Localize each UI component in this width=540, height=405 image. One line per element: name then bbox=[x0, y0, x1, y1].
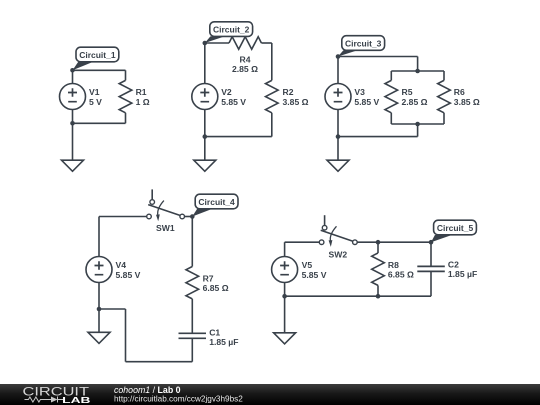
wire V5 top stub bbox=[284, 242, 286, 256]
svg-text:http://circuitlab.com/ccw2jgv3: http://circuitlab.com/ccw2jgv3h9bs2 bbox=[114, 394, 243, 403]
svg-text:R7: R7 bbox=[203, 273, 214, 283]
wire V5 bottom stub bbox=[284, 283, 286, 297]
node C1 bottom bbox=[70, 121, 75, 126]
resistor R5 bbox=[390, 71, 392, 80]
node C5 R8 bottom bbox=[376, 294, 381, 299]
svg-text:6.85 Ω: 6.85 Ω bbox=[388, 270, 414, 280]
node C3 bottom bar bbox=[415, 122, 420, 127]
wire right branch down to R2 bbox=[271, 43, 273, 80]
svg-text:5.85 V: 5.85 V bbox=[302, 270, 327, 280]
svg-text:V4: V4 bbox=[116, 260, 127, 270]
callout Circuit_2 bbox=[210, 22, 253, 37]
resistor R4 bbox=[229, 37, 261, 50]
wire ground stub C2 bbox=[204, 137, 206, 161]
callout Circuit_5 bbox=[434, 220, 477, 235]
logo schematic line bbox=[25, 397, 64, 403]
svg-text:2.85 Ω: 2.85 Ω bbox=[232, 64, 258, 74]
voltage source V2 bbox=[192, 84, 218, 110]
capacitor C2 bbox=[430, 242, 432, 266]
wire top C1 bbox=[73, 69, 126, 71]
wire switch to node bbox=[185, 216, 193, 218]
wire mid rise bbox=[417, 124, 419, 137]
svg-text:SW2: SW2 bbox=[329, 249, 348, 259]
svg-text:Circuit_2: Circuit_2 bbox=[213, 25, 250, 35]
callout Circuit_4 bbox=[195, 194, 238, 209]
wire bottom C3 bbox=[338, 136, 418, 138]
svg-text:R8: R8 bbox=[388, 260, 399, 270]
node C3 top bar bbox=[415, 69, 420, 74]
footer bar bbox=[0, 384, 540, 405]
wire V4 bottom stub bbox=[98, 283, 100, 310]
node C2 bottom bbox=[203, 134, 208, 139]
callout Circuit_3 bbox=[342, 36, 385, 51]
wire mid drop bbox=[417, 57, 419, 72]
ground C2 bbox=[194, 160, 216, 171]
wire V2 top stub bbox=[204, 43, 206, 84]
wire bottom bar bbox=[391, 123, 444, 125]
resistor R2 bbox=[266, 80, 279, 112]
svg-text:Circuit_3: Circuit_3 bbox=[345, 39, 382, 49]
node C5 bottom-left bbox=[282, 294, 287, 299]
wire elbow to node bbox=[99, 308, 126, 310]
svg-text:5.85 V: 5.85 V bbox=[116, 270, 141, 280]
node C5 C2 top bbox=[429, 240, 434, 245]
svg-text:3.85 Ω: 3.85 Ω bbox=[454, 97, 480, 107]
svg-text:5 V: 5 V bbox=[89, 97, 102, 107]
wire R4 to corner bbox=[261, 42, 271, 44]
node C4 bottom-left bbox=[97, 307, 102, 312]
voltage source V1 bbox=[60, 84, 86, 110]
svg-text:5.85 V: 5.85 V bbox=[221, 97, 246, 107]
wire node to R4 bbox=[205, 42, 229, 44]
capacitor C1 bbox=[179, 333, 207, 338]
resistor R1 bbox=[125, 70, 127, 80]
node C5 R8 top bbox=[376, 240, 381, 245]
resistor R7 bbox=[186, 267, 199, 299]
wire V1 top stub bbox=[72, 70, 74, 83]
wire top bar bbox=[391, 70, 444, 72]
wire V1 bottom stub bbox=[72, 110, 74, 124]
voltage source V5 bbox=[272, 257, 298, 283]
svg-text:R4: R4 bbox=[240, 55, 251, 65]
svg-text:6.85 Ω: 6.85 Ω bbox=[203, 283, 229, 293]
wire ground stub C4 bbox=[98, 309, 100, 332]
resistor R6 bbox=[443, 71, 445, 80]
ground C3 bbox=[327, 160, 349, 171]
wire top C3 bbox=[338, 56, 418, 58]
ground C1 bbox=[62, 160, 84, 171]
wire right branch down C4 bbox=[191, 217, 193, 267]
resistor R8 bbox=[377, 242, 379, 253]
callouts bbox=[73, 22, 477, 242]
svg-text:V3: V3 bbox=[354, 87, 365, 97]
voltage source V4 bbox=[86, 257, 112, 283]
svg-text:C2: C2 bbox=[448, 260, 459, 270]
wire ground stub C3 bbox=[337, 137, 339, 161]
wire V3 bottom stub bbox=[337, 110, 339, 137]
svg-text:LAB: LAB bbox=[62, 395, 90, 405]
svg-text:V1: V1 bbox=[89, 87, 100, 97]
svg-text:V2: V2 bbox=[221, 87, 232, 97]
wire switch to C2 branch bbox=[357, 241, 431, 243]
wire V3 top stub bbox=[337, 57, 339, 84]
switch SW1 bbox=[151, 189, 153, 199]
wire bottom rail C4 bbox=[126, 361, 193, 363]
node C3 top-left bbox=[336, 54, 341, 59]
svg-text:1 Ω: 1 Ω bbox=[136, 97, 150, 107]
logo diode bbox=[51, 397, 58, 403]
svg-text:R5: R5 bbox=[402, 87, 413, 97]
svg-text:R2: R2 bbox=[283, 87, 294, 97]
node dots bbox=[70, 41, 433, 312]
wire bottom C2 bbox=[205, 136, 272, 138]
node C1 top bbox=[70, 68, 75, 73]
voltage source V3 bbox=[325, 84, 351, 110]
svg-text:SW1: SW1 bbox=[156, 223, 175, 233]
svg-text:C1: C1 bbox=[209, 327, 220, 337]
node C4 switch out bbox=[190, 214, 195, 219]
svg-text:3.85 Ω: 3.85 Ω bbox=[283, 97, 309, 107]
svg-text:1.85 µF: 1.85 µF bbox=[448, 269, 477, 279]
wire top rail left C4 bbox=[99, 216, 147, 218]
svg-text:2.85 Ω: 2.85 Ω bbox=[402, 97, 428, 107]
wire V4 top stub bbox=[98, 217, 100, 257]
svg-text:1.85 µF: 1.85 µF bbox=[209, 337, 238, 347]
wire ground stub C1 bbox=[72, 123, 74, 160]
switch SW2 bbox=[324, 215, 326, 225]
node C2 top bbox=[203, 41, 208, 46]
callout Circuit_1 bbox=[76, 47, 119, 62]
wire left elbow up bbox=[125, 309, 127, 362]
wire bottom rail C5 bbox=[285, 295, 431, 297]
svg-text:R6: R6 bbox=[454, 87, 465, 97]
svg-text:Circuit_5: Circuit_5 bbox=[437, 223, 474, 233]
ground C5 bbox=[274, 333, 296, 344]
svg-text:Circuit_1: Circuit_1 bbox=[79, 50, 116, 60]
ground C4 bbox=[88, 332, 110, 343]
svg-text:Circuit_4: Circuit_4 bbox=[198, 197, 235, 207]
wire bottom C1 bbox=[73, 122, 126, 124]
wire top rail left C5 bbox=[285, 241, 320, 243]
svg-text:V5: V5 bbox=[302, 260, 313, 270]
svg-text:5.85 V: 5.85 V bbox=[354, 97, 379, 107]
wire ground stub C5 bbox=[284, 296, 286, 333]
svg-text:R1: R1 bbox=[136, 87, 147, 97]
node C3 bottom-left bbox=[336, 134, 341, 139]
wire V2 bottom stub bbox=[204, 110, 206, 137]
